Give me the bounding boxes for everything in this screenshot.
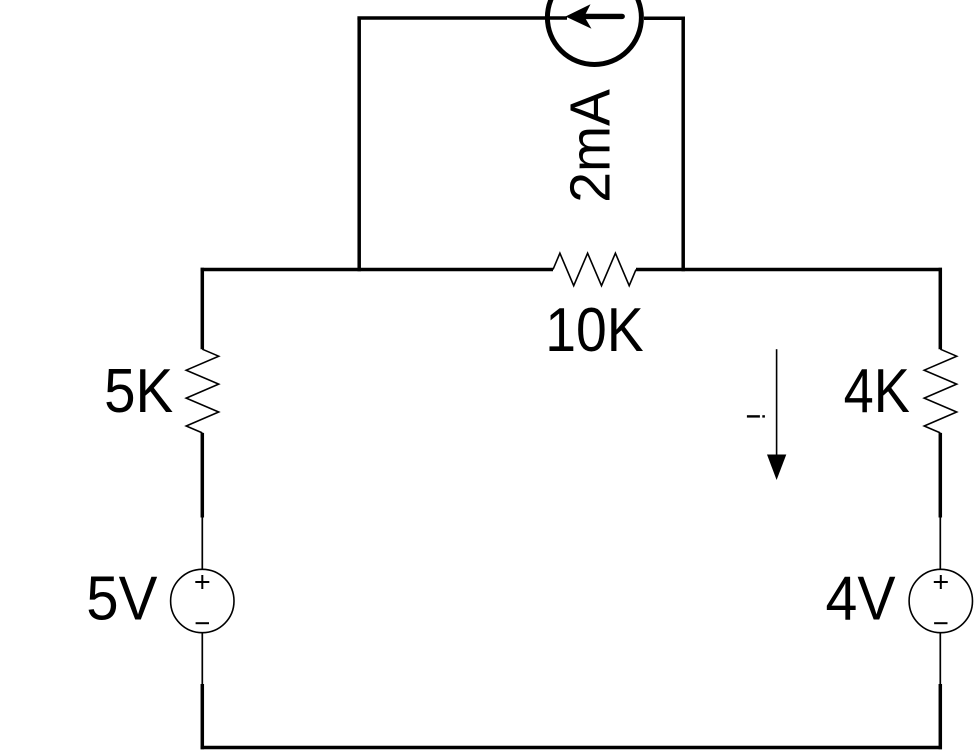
wire left side of current-source loop [357,18,361,271]
label i (rotated) dash [747,415,760,417]
svg-text:10K: 10K [545,296,643,365]
current source I1 circle [547,0,641,65]
current arrow i head [767,455,786,481]
lead wire out of 4V source [939,633,941,684]
5V minus sign [196,622,209,624]
wire left branch upper [201,268,205,349]
4V plus sign [934,575,948,589]
wire right branch middle [939,433,943,518]
wire right branch upper [939,268,943,349]
wire middle horizontal left of R 10K [201,268,553,272]
wire right side of current-source loop [681,18,685,271]
5V plus sign [195,575,209,589]
wire left branch middle [201,433,205,518]
wire bottom [201,746,942,750]
resistor 4K zigzag [924,349,957,433]
wire right branch lower [939,684,943,749]
svg-text:5V: 5V [86,565,158,634]
svg-text:4K: 4K [844,357,910,426]
wire middle horizontal right of R 10K [636,268,942,272]
lead wire out of 5V source [201,633,203,684]
lead wire into 4V source [939,518,941,570]
wire top right (circle edge to loop corner) [644,16,685,20]
resistor 5K zigzag [186,349,219,433]
current source arrow shaft [586,14,623,19]
4V minus sign [934,622,947,624]
lead wire into 5V source [201,518,203,570]
current source arrowhead [566,4,592,29]
voltage source 4V circle [909,569,972,632]
current arrow i shaft [776,349,778,456]
resistor 10K zigzag [553,253,636,286]
svg-text:4V: 4V [826,565,897,634]
label i (rotated) dot [762,415,765,417]
svg-text:5K: 5K [104,357,173,426]
wire top left (loop top to arrow tip) [357,16,567,20]
wire left branch lower [201,684,205,749]
svg-text:2mA: 2mA [559,89,623,203]
voltage source 5V circle [171,569,234,632]
